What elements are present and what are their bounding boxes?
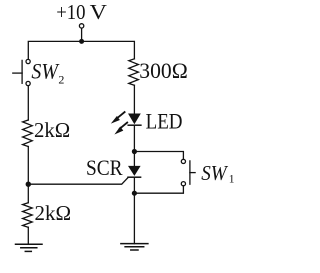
svg-text:2kΩ: 2kΩ	[35, 201, 72, 225]
svg-text:300Ω: 300Ω	[139, 58, 188, 83]
svg-text:LED: LED	[146, 109, 183, 134]
svg-text:2kΩ: 2kΩ	[34, 118, 70, 142]
svg-text:1: 1	[229, 174, 235, 186]
svg-text:SCR: SCR	[86, 155, 123, 180]
svg-text:V: V	[90, 0, 108, 24]
svg-text:SW: SW	[31, 58, 59, 83]
svg-text:2: 2	[58, 73, 64, 87]
svg-text:SW: SW	[201, 161, 228, 185]
svg-text:+10: +10	[56, 0, 85, 24]
